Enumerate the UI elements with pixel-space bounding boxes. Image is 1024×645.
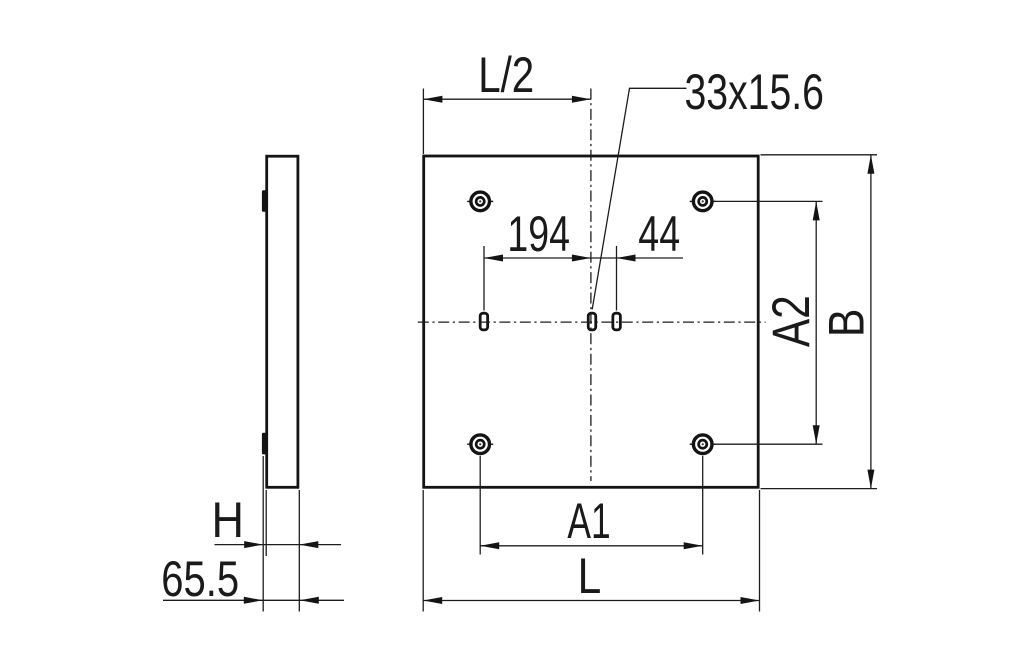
svg-text:B: B	[818, 309, 874, 338]
svg-text:65.5: 65.5	[161, 551, 239, 607]
svg-text:L/2: L/2	[478, 47, 534, 103]
svg-text:A2: A2	[763, 295, 822, 347]
svg-text:A1: A1	[567, 494, 610, 549]
svg-text:H: H	[212, 493, 244, 549]
svg-text:194: 194	[507, 207, 570, 262]
svg-text:L: L	[578, 548, 602, 604]
svg-text:44: 44	[638, 207, 680, 262]
svg-text:33x15.6: 33x15.6	[685, 63, 824, 120]
